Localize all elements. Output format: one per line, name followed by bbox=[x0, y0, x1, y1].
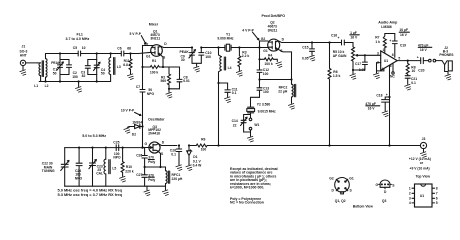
svg-text:C16: C16 bbox=[331, 33, 337, 37]
node D2 bbox=[141, 125, 143, 127]
svg-text:G1: G1 bbox=[146, 54, 151, 58]
ground FL1 bottom bbox=[75, 80, 82, 92]
svg-text:U1: U1 bbox=[420, 194, 424, 198]
mixer labels bbox=[149, 23, 160, 41]
svg-text:NPO: NPO bbox=[75, 176, 83, 180]
node gate bbox=[141, 146, 143, 148]
capacitor C6 series bbox=[111, 46, 131, 56]
bottom rail of FL1 bbox=[39, 81, 110, 83]
transistor Q3 (MPF102 oscillator) bbox=[145, 140, 165, 156]
svg-text:10: 10 bbox=[82, 46, 86, 50]
capacitor C28 bbox=[170, 144, 182, 164]
capacitor C2 bbox=[60, 60, 78, 82]
svg-text:6: 6 bbox=[390, 64, 392, 68]
transformer core L1/L2 bbox=[42, 61, 43, 77]
choke RFC2 bbox=[278, 80, 295, 104]
svg-text:C25: C25 bbox=[113, 140, 119, 144]
svg-text:J3: J3 bbox=[422, 137, 426, 141]
jack contacts bbox=[429, 59, 443, 62]
transformer L2 bbox=[45, 54, 49, 88]
resistor R4 bbox=[260, 54, 278, 66]
ground at D2 bbox=[124, 127, 131, 134]
svg-text:1 µF: 1 µF bbox=[350, 31, 357, 35]
svg-text:22: 22 bbox=[233, 123, 237, 127]
svg-text:7: 7 bbox=[436, 192, 438, 196]
node C9 bbox=[191, 46, 193, 48]
node C12 bottom bbox=[258, 78, 260, 80]
svg-text:Q1, Q2: Q1, Q2 bbox=[335, 199, 346, 203]
svg-text:5: 5 bbox=[398, 56, 400, 60]
svg-text:16 V: 16 V bbox=[350, 36, 358, 40]
svg-text:AF GAIN: AF GAIN bbox=[333, 54, 347, 58]
pinout Q1 Q2 can bbox=[329, 177, 354, 203]
power labels bbox=[409, 157, 431, 170]
svg-text:C7: C7 bbox=[136, 85, 140, 89]
transistor Q2 (prod det/BFO) bbox=[261, 37, 285, 53]
svg-text:100 k: 100 k bbox=[264, 62, 273, 66]
ground at D1 bbox=[186, 165, 193, 171]
wire J1 to L1 bbox=[26, 62, 38, 64]
svg-text:100 k: 100 k bbox=[150, 70, 159, 74]
wire to Y1 bbox=[201, 47, 225, 49]
variable capacitor C22 MAIN TUNING bbox=[42, 148, 69, 187]
svg-text:k=1000, M=1000 000.: k=1000, M=1000 000. bbox=[230, 186, 264, 190]
svg-text:470 µF: 470 µF bbox=[418, 43, 428, 47]
diode D2 1N914 bbox=[129, 121, 142, 137]
svg-text:68: 68 bbox=[127, 46, 131, 50]
svg-text:220 k: 220 k bbox=[125, 169, 134, 173]
svg-text:22 µH: 22 µH bbox=[278, 90, 288, 94]
node R6 top bbox=[328, 41, 330, 43]
wire VFO bottom rail bbox=[65, 185, 166, 187]
inductor L3 bbox=[109, 54, 121, 82]
svg-text:0.1: 0.1 bbox=[232, 91, 237, 95]
svg-text:10 V P-P: 10 V P-P bbox=[121, 109, 135, 113]
svg-text:R4: R4 bbox=[268, 54, 272, 58]
capacitor C13 bbox=[251, 80, 270, 107]
svg-text:L3: L3 bbox=[117, 65, 121, 69]
svg-text:2.2 k: 2.2 k bbox=[242, 54, 250, 58]
transistor Q1 (40673 mixer) bbox=[144, 42, 167, 59]
wire to mixer G1 bbox=[131, 52, 152, 53]
wire Q1 drain line bbox=[161, 46, 192, 47]
svg-text:LM386: LM386 bbox=[381, 25, 392, 29]
svg-text:10: 10 bbox=[412, 69, 416, 73]
wire Q2 drain line bbox=[278, 41, 341, 43]
capacitor C12 bbox=[257, 48, 269, 80]
ground at C28 bbox=[176, 165, 183, 171]
svg-text:30: 30 bbox=[181, 58, 185, 62]
svg-text:+9 V (10 mA): +9 V (10 mA) bbox=[410, 166, 430, 170]
svg-text:5 V P-P: 5 V P-P bbox=[130, 32, 142, 36]
ground at R5/C17 bbox=[350, 69, 357, 80]
node C18 bbox=[388, 96, 390, 98]
crystal Y2 bbox=[247, 103, 276, 118]
capacitor C10 bbox=[199, 48, 212, 64]
VFO frequency notes bbox=[58, 188, 123, 197]
svg-text:R9: R9 bbox=[201, 138, 205, 142]
capacitor C26 bbox=[136, 148, 155, 167]
ground at RFC2 bbox=[288, 103, 295, 109]
svg-text:FL1: FL1 bbox=[77, 33, 83, 37]
svg-text:16 V: 16 V bbox=[400, 33, 408, 37]
svg-text:G: G bbox=[145, 142, 148, 146]
svg-text:4 V P-P: 4 V P-P bbox=[242, 28, 254, 32]
svg-text:1.5 k: 1.5 k bbox=[333, 74, 341, 78]
svg-text:0.01: 0.01 bbox=[183, 79, 190, 83]
svg-text:2: 2 bbox=[409, 192, 411, 196]
svg-text:220 µH: 220 µH bbox=[172, 177, 183, 181]
svg-text:C18: C18 bbox=[376, 93, 382, 97]
svg-text:G2: G2 bbox=[329, 177, 334, 181]
trimmer C4 bbox=[94, 54, 106, 82]
wire U1 pin2 to ground bbox=[373, 63, 384, 79]
svg-text:G: G bbox=[376, 183, 379, 187]
svg-text:6: 6 bbox=[436, 197, 438, 201]
svg-text:100: 100 bbox=[263, 72, 269, 76]
svg-text:G1: G1 bbox=[263, 49, 268, 53]
op-amp U1 LM386 bbox=[377, 48, 400, 71]
wire Q3 source to divider bbox=[145, 151, 161, 167]
svg-text:TUNING: TUNING bbox=[42, 169, 55, 173]
wire Q3 drain bbox=[158, 144, 177, 146]
label 5 V P-P with arrow bbox=[130, 32, 147, 44]
node R3 bbox=[238, 46, 240, 48]
ground at J1 bbox=[20, 66, 27, 76]
svg-text:C17: C17 bbox=[355, 62, 361, 66]
wire wiper to U1 pin3 bbox=[365, 54, 381, 56]
audio amp labels bbox=[378, 20, 398, 28]
trimmer C1 PEAK bbox=[51, 54, 63, 76]
ground at R4 bbox=[276, 62, 283, 68]
capacitor C19 bbox=[389, 28, 409, 57]
node C11 bbox=[217, 82, 219, 84]
capacitor C5 series bbox=[73, 46, 97, 56]
ground at C11 bbox=[224, 97, 231, 103]
svg-text:NC = No Connection: NC = No Connection bbox=[230, 201, 264, 205]
wire G2 riser bbox=[260, 41, 269, 48]
svg-text:Top View: Top View bbox=[416, 174, 431, 178]
wire Q1 G2 bbox=[143, 46, 154, 68]
svg-text:Audio Amp: Audio Amp bbox=[378, 20, 398, 24]
trimmer C9 PEAK bbox=[180, 48, 196, 64]
svg-text:82: 82 bbox=[82, 74, 86, 78]
svg-text:C26: C26 bbox=[136, 153, 142, 157]
resistor R6 bbox=[328, 43, 340, 146]
svg-text:Y2 3.580: Y2 3.580 bbox=[257, 103, 271, 107]
svg-text:5.0 to 5.3 MHz: 5.0 to 5.3 MHz bbox=[82, 134, 106, 138]
svg-text:100: 100 bbox=[201, 148, 207, 152]
svg-text:50: 50 bbox=[53, 71, 57, 75]
svg-text:Q3: Q3 bbox=[382, 199, 387, 203]
svg-text:NC: NC bbox=[390, 75, 395, 79]
resistor R10 bbox=[121, 147, 134, 177]
connector J3 bbox=[420, 137, 426, 148]
svg-text:16 V: 16 V bbox=[368, 107, 376, 111]
svg-text:U1: U1 bbox=[384, 59, 388, 63]
svg-text:2N4416: 2N4416 bbox=[148, 132, 160, 136]
node wiper bbox=[364, 54, 366, 56]
prod det labels bbox=[262, 14, 286, 32]
resistor R2 bbox=[161, 67, 171, 89]
svg-text:0.1: 0.1 bbox=[171, 152, 176, 156]
wire source bus bbox=[260, 79, 292, 81]
svg-text:470 µF: 470 µF bbox=[365, 102, 375, 106]
node Q2 gate bbox=[258, 46, 260, 48]
node RFC1 top bbox=[159, 166, 161, 168]
node tank2 top bbox=[96, 52, 98, 54]
node L3 top bbox=[110, 52, 112, 54]
svg-text:W1: W1 bbox=[254, 123, 259, 127]
svg-text:6.8 k: 6.8 k bbox=[123, 63, 131, 67]
capacitor C20 bbox=[417, 43, 432, 72]
notes text bbox=[230, 167, 278, 205]
svg-text:1: 1 bbox=[409, 186, 411, 190]
svg-text:C19: C19 bbox=[400, 43, 406, 47]
svg-text:3N211: 3N211 bbox=[268, 29, 278, 33]
svg-text:+: + bbox=[389, 39, 391, 43]
connector J2 PHONES bbox=[439, 46, 454, 80]
ground at C21 bbox=[404, 84, 411, 90]
node G2/R1 bbox=[141, 66, 143, 68]
wire pin6 riser to power rail bbox=[389, 97, 391, 146]
node R11 top bbox=[129, 52, 131, 54]
wire Q2 source bbox=[278, 49, 292, 79]
svg-text:C5: C5 bbox=[73, 46, 77, 50]
inductor L5 bbox=[104, 147, 116, 187]
ground at C15 bbox=[309, 55, 316, 61]
svg-text:5: 5 bbox=[436, 201, 438, 205]
crystal Y1 bbox=[217, 33, 239, 52]
svg-text:ANT: ANT bbox=[20, 54, 27, 58]
svg-text:9.000 MHz: 9.000 MHz bbox=[217, 37, 233, 41]
svg-text:NPO: NPO bbox=[113, 156, 121, 160]
wire VFO top rail bbox=[65, 147, 145, 149]
resistor R1 bbox=[143, 59, 164, 75]
svg-text:3: 3 bbox=[377, 51, 379, 55]
svg-text:R1: R1 bbox=[152, 59, 156, 63]
svg-text:8: 8 bbox=[436, 186, 438, 190]
svg-text:0.4 W: 0.4 W bbox=[193, 164, 203, 168]
resistor R9 bbox=[189, 138, 219, 152]
svg-text:150: 150 bbox=[72, 75, 78, 79]
capacitor C16 bbox=[331, 31, 359, 46]
svg-text:D2: D2 bbox=[132, 132, 136, 136]
transformer L1 bbox=[34, 63, 40, 88]
ground at C18 bbox=[382, 111, 389, 117]
ground at R10 bbox=[119, 176, 126, 182]
potentiometer R5 AF GAIN bbox=[333, 46, 365, 70]
ground at RFC1 bbox=[165, 186, 167, 190]
svg-text:100: 100 bbox=[263, 90, 269, 94]
capacitor C18 bbox=[365, 93, 389, 111]
svg-text:Mixer: Mixer bbox=[149, 23, 159, 27]
pin7 NC bbox=[390, 63, 395, 78]
trimmer C23 CAL bbox=[89, 147, 103, 187]
svg-text:PHONES: PHONES bbox=[439, 53, 454, 57]
svg-text:+: + bbox=[338, 36, 340, 40]
wire rail to L3 bbox=[97, 53, 111, 55]
ground at J3 bbox=[420, 149, 427, 158]
node C26/C27 bbox=[144, 166, 146, 168]
node R4 left bbox=[258, 58, 260, 60]
svg-text:4: 4 bbox=[409, 201, 411, 205]
ground C9/C10 bbox=[192, 63, 201, 72]
svg-text:Prod Det/BFO: Prod Det/BFO bbox=[262, 14, 286, 18]
power rail to J3 bbox=[219, 145, 421, 147]
svg-text:+: + bbox=[417, 56, 419, 60]
svg-text:PEAK: PEAK bbox=[51, 61, 61, 65]
svg-text:C14: C14 bbox=[232, 119, 238, 123]
svg-text:G2: G2 bbox=[261, 37, 266, 41]
svg-text:C6: C6 bbox=[117, 46, 121, 50]
svg-text:1 k: 1 k bbox=[375, 40, 380, 44]
svg-text:Bottom View: Bottom View bbox=[353, 204, 374, 208]
capacitor C25 bbox=[113, 140, 121, 159]
wire U1 pin6 supply bbox=[389, 66, 391, 97]
inductor L4 bbox=[219, 48, 232, 84]
svg-text:1N914: 1N914 bbox=[132, 121, 142, 125]
ground at R2/C8 bbox=[166, 88, 173, 98]
capacitor C15 bbox=[302, 41, 315, 60]
svg-text:0.05: 0.05 bbox=[302, 56, 309, 60]
ground at R3 bbox=[236, 71, 243, 77]
capacitor C24 bbox=[75, 147, 83, 187]
label 4 V P-P with arrow bbox=[242, 28, 258, 40]
svg-text:100: 100 bbox=[205, 55, 211, 59]
capacitor C3 bbox=[81, 60, 97, 79]
choke RFC1 bbox=[161, 167, 183, 186]
label FL1 bbox=[66, 33, 90, 42]
svg-text:C20: C20 bbox=[418, 68, 424, 72]
svg-text:0.05: 0.05 bbox=[359, 68, 366, 72]
svg-text:+: + bbox=[386, 93, 388, 97]
svg-text:CAL: CAL bbox=[96, 172, 103, 176]
ground at R11 bbox=[127, 74, 134, 80]
wire U1 output pin5 bbox=[397, 60, 421, 62]
svg-text:50: 50 bbox=[101, 72, 105, 76]
svg-text:560: 560 bbox=[161, 79, 167, 83]
oscillator labels bbox=[148, 117, 165, 135]
node C1 top bbox=[59, 52, 61, 54]
resistor R3 bbox=[238, 48, 249, 71]
svg-text:10 µF: 10 µF bbox=[399, 28, 408, 32]
svg-text:8: 8 bbox=[392, 53, 394, 57]
capacitor C8 bbox=[169, 67, 190, 89]
wire Q1 source bbox=[161, 55, 163, 67]
svg-text:Poly: Poly bbox=[148, 178, 155, 182]
svg-text:Poly: Poly bbox=[148, 160, 155, 164]
node R8 bbox=[407, 60, 409, 62]
svg-text:C15: C15 bbox=[302, 46, 308, 50]
svg-text:Oscillator: Oscillator bbox=[148, 117, 165, 121]
svg-text:9.0015 MHz: 9.0015 MHz bbox=[258, 109, 276, 113]
svg-text:1: 1 bbox=[383, 48, 385, 52]
resistor R11 bbox=[123, 54, 132, 74]
svg-text:3.7 to 4.0 MHz: 3.7 to 4.0 MHz bbox=[66, 37, 90, 41]
wire top rail tank1 bbox=[46, 53, 79, 55]
ground at Y2 bbox=[247, 136, 254, 142]
svg-text:3: 3 bbox=[409, 197, 411, 201]
IC U1 DIP-8 bbox=[409, 184, 438, 207]
svg-text:3N211: 3N211 bbox=[150, 36, 160, 40]
label 10 V P-P with arrow bbox=[121, 109, 141, 116]
capacitor C17 bbox=[353, 55, 367, 72]
svg-text:0.1: 0.1 bbox=[411, 81, 416, 85]
node C10 bbox=[200, 46, 202, 48]
capacitor C27 bbox=[136, 167, 155, 186]
wire riser x219 bbox=[218, 83, 220, 146]
trimmer C14 bbox=[232, 115, 251, 133]
svg-text:L2: L2 bbox=[45, 84, 49, 88]
capacitor C21 bbox=[405, 74, 417, 85]
connector J1 ANT bbox=[20, 45, 28, 66]
svg-text:16 V: 16 V bbox=[420, 48, 428, 52]
svg-text:L1: L1 bbox=[34, 84, 38, 88]
resistor R8 bbox=[406, 61, 416, 75]
ground VFO rail bbox=[144, 186, 151, 196]
capacitor C11 bbox=[219, 83, 238, 97]
pinout Q3 package bbox=[376, 180, 396, 203]
jumper W1 posts bbox=[249, 118, 259, 136]
svg-text:C27: C27 bbox=[136, 173, 142, 177]
svg-text:L5: L5 bbox=[112, 167, 116, 171]
resistor R7 bbox=[375, 34, 395, 53]
svg-text:NPO: NPO bbox=[147, 92, 155, 96]
svg-text:5.3 MHz osc freq = 3.7 MHz RX: 5.3 MHz osc freq = 3.7 MHz RX freq bbox=[58, 192, 123, 197]
node L4 supply riser bbox=[217, 144, 219, 146]
node L4 bbox=[217, 46, 219, 48]
svg-text:L4: L4 bbox=[228, 66, 232, 70]
svg-text:G1: G1 bbox=[349, 177, 354, 181]
capacitor C7 bbox=[136, 67, 155, 127]
svg-text:J1: J1 bbox=[22, 45, 26, 49]
wire gate line bbox=[142, 127, 144, 148]
zener D1 bbox=[187, 144, 203, 167]
wire to Q2 gates bbox=[239, 47, 267, 49]
